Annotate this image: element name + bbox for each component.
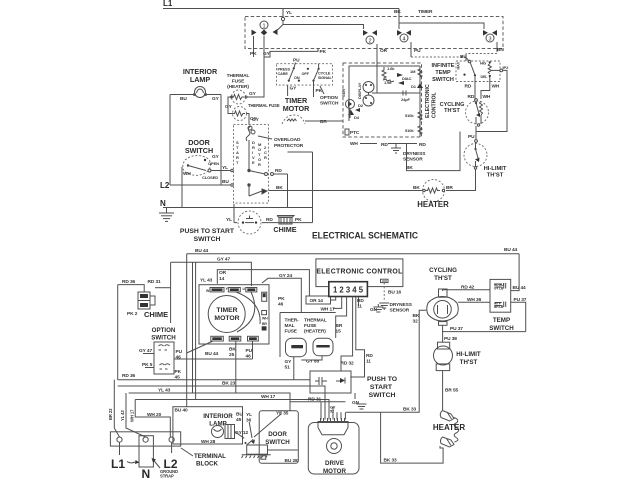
svg-text:BU: BU [236, 412, 243, 418]
svg-text:CHIME: CHIME [273, 225, 296, 234]
timer bottom terminals [211, 336, 258, 341]
svg-text:1: 1 [262, 24, 265, 30]
wire between fuses [228, 97, 233, 114]
svg-text:RD: RD [468, 94, 475, 100]
svg-text:PUSH TO START: PUSH TO START [180, 228, 235, 235]
svg-text:HIG: HIG [480, 62, 486, 66]
svg-text:BU 16: BU 16 [388, 290, 402, 296]
svg-text:R: R [258, 162, 261, 167]
wire BR to EC [305, 120, 343, 122]
svg-text:PK: PK [175, 369, 182, 375]
wire GN pts [354, 393, 356, 399]
svg-text:RD 36: RD 36 [122, 373, 136, 379]
svg-text:OR: OR [219, 270, 227, 276]
svg-text:TH'ST: TH'ST [444, 108, 460, 114]
svg-text:GY: GY [212, 96, 220, 102]
svg-text:ELECTRONIC: ELECTRONIC [425, 84, 431, 118]
wire resistor to IP2 [492, 69, 500, 71]
drive motor bottom [308, 418, 359, 475]
svg-text:IP2: IP2 [503, 65, 510, 70]
svg-text:PRESS: PRESS [278, 68, 291, 72]
svg-text:BU 44: BU 44 [205, 351, 219, 357]
wire PU37 bottom [442, 325, 444, 342]
svg-text:PK: PK [295, 217, 302, 223]
svg-text:CONTROL: CONTROL [432, 92, 438, 118]
inner frame [349, 66, 420, 93]
wire BK branch to circle3 [399, 23, 484, 29]
infinite temp switch box [456, 61, 500, 82]
svg-text:RD: RD [266, 217, 273, 223]
push to start box bottom [310, 371, 351, 393]
OR drop [376, 66, 378, 82]
svg-text:TERMINAL: TERMINAL [194, 453, 226, 460]
svg-text:45: 45 [236, 417, 242, 423]
svg-text:OPTION: OPTION [320, 95, 338, 101]
timer switch dashed box [245, 17, 503, 49]
wire RD42 [443, 290, 490, 291]
svg-text:BR: BR [336, 323, 343, 329]
svg-text:BH LB: BH LB [494, 305, 504, 309]
svg-text:SWITCH: SWITCH [185, 146, 213, 155]
svg-text:GY LB: GY LB [494, 287, 504, 291]
svg-text:FUSE: FUSE [285, 329, 298, 335]
heater top [413, 180, 453, 202]
svg-text:DOOR: DOOR [268, 431, 287, 438]
press care switch [293, 67, 295, 69]
temp switch box [490, 279, 511, 312]
svg-text:RD: RD [366, 353, 373, 359]
svg-text:FUSE: FUSE [232, 79, 245, 85]
timer top terminals [206, 287, 257, 293]
svg-text:LAMP: LAMP [190, 75, 211, 84]
svg-text:SWITCH: SWITCH [265, 439, 290, 446]
svg-text:D1: D1 [411, 84, 417, 89]
wire GY12 [235, 432, 245, 439]
heater bottom [433, 411, 466, 448]
svg-text:PK: PK [250, 51, 257, 57]
connector 12345 [329, 282, 368, 297]
wire heater left [313, 190, 424, 192]
svg-text:36: 36 [246, 418, 252, 424]
svg-text:WH: WH [483, 94, 491, 100]
svg-text:BK 33: BK 33 [403, 407, 417, 413]
svg-text:E: E [252, 160, 255, 165]
svg-text:BK: BK [276, 185, 283, 191]
svg-text:THERMAL: THERMAL [227, 73, 250, 79]
wire OR14 feed [217, 270, 309, 296]
svg-text:MAX: MAX [457, 61, 461, 69]
svg-text:BR 23: BR 23 [108, 408, 113, 420]
wire YL to contact 2 [283, 21, 364, 29]
svg-text:CHIME: CHIME [144, 310, 168, 319]
node YL junction [281, 17, 284, 20]
svg-text:BK: BK [413, 313, 420, 319]
svg-text:PU 37: PU 37 [450, 326, 463, 332]
wire door to right [268, 449, 298, 451]
svg-text:WH: WH [262, 317, 268, 321]
wire lamp box right [220, 95, 222, 186]
svg-text:SWITCH: SWITCH [489, 325, 514, 332]
svg-text:GY: GY [290, 86, 298, 92]
svg-text:GY: GY [212, 154, 220, 160]
resistor 1.9k diag [383, 79, 394, 82]
overload protector coil [246, 126, 251, 141]
svg-text:PU: PU [468, 134, 475, 140]
svg-text:HI-LIMIT: HI-LIMIT [484, 166, 507, 172]
svg-text:TEMP: TEMP [493, 317, 510, 324]
wire GY below [287, 85, 289, 96]
wire hi-limit to heater [446, 170, 476, 191]
svg-text:SWITCH: SWITCH [194, 236, 221, 243]
right rail [419, 66, 421, 137]
svg-text:SCR: SCR [341, 89, 346, 97]
wire RD32 pin4 [341, 297, 353, 372]
wire RD drop to chime row [287, 174, 289, 208]
svg-text:GY 55: GY 55 [306, 359, 319, 365]
svg-text:BR: BR [446, 185, 453, 191]
svg-text:YL: YL [286, 10, 292, 16]
svg-text:STRAP: STRAP [160, 474, 174, 479]
electronic control box bottom [316, 259, 403, 287]
wire door sw left drop [181, 167, 183, 208]
svg-text:510k: 510k [405, 113, 414, 118]
door mechanism [242, 412, 271, 459]
svg-text:OPEN: OPEN [208, 161, 219, 166]
timer box bottom [199, 285, 269, 344]
timer motor arc [282, 115, 305, 124]
svg-text:BU 44: BU 44 [195, 248, 209, 254]
wire BK from motor [269, 190, 314, 192]
svg-text:PU: PU [293, 58, 300, 64]
svg-text:46: 46 [246, 354, 252, 360]
svg-text:ELECTRICAL SCHEMATIC: ELECTRICAL SCHEMATIC [312, 231, 418, 241]
hi-limit thst top [464, 143, 487, 170]
svg-text:GY: GY [285, 359, 293, 365]
svg-text:SWITCH: SWITCH [320, 101, 339, 107]
svg-text:OR 14: OR 14 [310, 298, 324, 304]
svg-text:TH'ST: TH'ST [434, 275, 452, 282]
svg-text:BR 55: BR 55 [445, 388, 459, 394]
internal verticals [348, 93, 350, 121]
svg-text:11: 11 [357, 304, 362, 310]
node IP2 [500, 69, 503, 72]
svg-text:TH'ST: TH'ST [460, 359, 478, 366]
svg-text:RD: RD [381, 142, 388, 148]
svg-text:BK 33: BK 33 [384, 458, 398, 464]
svg-text:CARE: CARE [278, 72, 289, 76]
svg-text:N: N [160, 199, 166, 208]
svg-text:PU: PU [414, 48, 421, 54]
svg-text:D4: D4 [354, 115, 360, 120]
wire BK drop to timer contacts [398, 9, 400, 30]
cycling thst top [466, 99, 489, 127]
svg-text:14: 14 [219, 276, 225, 282]
wire L1 bus [163, 8, 399, 10]
svg-text:RD 42: RD 42 [461, 285, 475, 291]
svg-text:THERMAL FUSE: THERMAL FUSE [248, 103, 280, 108]
wire BR55 [442, 371, 444, 410]
wire GY step [264, 49, 318, 58]
svg-text:WH 28: WH 28 [201, 439, 216, 445]
timer cam curves [236, 292, 260, 324]
svg-text:BU: BU [180, 96, 187, 102]
svg-text:YL 43: YL 43 [158, 388, 171, 394]
diac [397, 73, 403, 77]
svg-text:46: 46 [278, 302, 284, 308]
svg-text:WH 36: WH 36 [467, 297, 482, 303]
svg-text:L1: L1 [163, 0, 173, 8]
wire heater return [381, 412, 444, 463]
svg-text:GN: GN [352, 400, 360, 406]
svg-text:DRYNESS: DRYNESS [390, 302, 413, 308]
svg-text:YL 35: YL 35 [276, 411, 289, 417]
svg-text:N: N [142, 467, 151, 480]
on off contacts [307, 68, 309, 70]
thermal fuse box bottom [280, 313, 336, 380]
svg-text:1.6k: 1.6k [387, 66, 395, 71]
svg-text:BR: BR [320, 119, 327, 125]
svg-text:CLOSED: CLOSED [202, 175, 218, 180]
wire BK from EC [407, 132, 461, 171]
chime bottom [127, 292, 168, 319]
wire YL drop [282, 9, 284, 18]
d2 d4 [355, 108, 360, 112]
svg-text:BU 44: BU 44 [513, 285, 527, 291]
svg-text:PU: PU [246, 348, 253, 354]
svg-text:THERMAL: THERMAL [304, 318, 327, 324]
chime speaker [277, 216, 302, 225]
wire YL36 [249, 422, 252, 438]
svg-text:4: 4 [402, 37, 405, 43]
wire RD11 pin5 [358, 297, 360, 307]
wire IP2 bypass [476, 70, 507, 131]
svg-text:SWITCH: SWITCH [369, 392, 396, 399]
timer cam contact 3 [483, 30, 504, 53]
dryness sensor top [391, 144, 401, 154]
svg-text:11: 11 [366, 359, 371, 365]
svg-text:46: 46 [176, 355, 182, 361]
svg-text:START: START [370, 384, 393, 391]
svg-text:BU 44: BU 44 [504, 247, 518, 253]
svg-text:PK: PK [320, 49, 327, 55]
svg-text:3: 3 [488, 37, 491, 43]
scr [346, 100, 355, 109]
display circles [363, 82, 374, 93]
wire RD31 [155, 287, 171, 289]
svg-text:25: 25 [229, 352, 235, 358]
svg-text:PROTECTOR: PROTECTOR [274, 143, 304, 149]
svg-text:WH 17: WH 17 [261, 394, 276, 400]
wire BU drop to inf temp switch [465, 54, 467, 62]
cycling thst bottom [427, 289, 459, 325]
svg-text:15: 15 [336, 329, 342, 335]
motor dashed box [234, 125, 269, 204]
svg-text:PK 2: PK 2 [127, 311, 138, 317]
svg-text:GY 24: GY 24 [279, 273, 292, 279]
rails mid [186, 254, 188, 407]
thermal fuse 2 [225, 103, 280, 122]
svg-text:PK: PK [278, 296, 285, 302]
timer right column [262, 292, 285, 330]
wire PU to inf temp area [411, 56, 466, 58]
svg-text:WH 20: WH 20 [147, 412, 162, 418]
timer switch cluster upper [264, 49, 339, 107]
wire RD36 chime [118, 285, 145, 292]
svg-text:WH: WH [492, 84, 500, 90]
svg-text:RD: RD [275, 168, 282, 174]
svg-text:RD 31: RD 31 [308, 397, 322, 403]
interior lamp box bottom [173, 407, 243, 444]
svg-text:HEATER: HEATER [433, 423, 466, 432]
svg-text:1 2 3 4 5: 1 2 3 4 5 [333, 285, 363, 295]
svg-text:BK: BK [394, 9, 401, 15]
wire PU37 right [511, 302, 526, 331]
wire GY24 [262, 278, 301, 312]
svg-text:TIMER: TIMER [216, 307, 237, 314]
cap on EC [381, 279, 389, 282]
svg-text:INFINITE: INFINITE [432, 63, 455, 69]
resistor 1.6k [382, 67, 386, 80]
svg-text:MOTOR: MOTOR [283, 104, 310, 113]
wire PK below [313, 85, 315, 97]
timer cam contact 1 [250, 21, 278, 57]
svg-text:HEATER: HEATER [417, 200, 449, 209]
svg-text:PU: PU [176, 349, 183, 355]
wire BU16 dryness [383, 283, 385, 302]
wire WH17 pin2 [333, 297, 342, 309]
svg-text:LAMP: LAMP [209, 421, 227, 428]
svg-text:SIGNAL: SIGNAL [318, 76, 333, 80]
svg-text:L1: L1 [111, 457, 125, 471]
svg-text:RD: RD [465, 84, 472, 90]
wire BR15 pin3 [336, 297, 347, 339]
svg-text:TIMER: TIMER [418, 9, 433, 15]
svg-text:52: 52 [330, 410, 334, 414]
svg-text:YL 43: YL 43 [200, 278, 213, 284]
wire L2 [170, 184, 231, 186]
svg-text:(HEATER): (HEATER) [304, 329, 326, 335]
svg-text:RD 32: RD 32 [341, 361, 355, 367]
svg-text:MOTOR: MOTOR [214, 315, 239, 322]
EC internals [341, 63, 423, 137]
svg-text:OPTION: OPTION [152, 327, 176, 334]
svg-text:BK: BK [406, 165, 413, 171]
wire chime row [234, 222, 237, 224]
option switch [139, 342, 183, 381]
wire fuse2 to motor box [247, 114, 250, 125]
svg-text:BR: BR [262, 322, 267, 326]
svg-text:RD: RD [419, 142, 426, 148]
svg-text:WH 17: WH 17 [130, 409, 135, 422]
wire WH36 [458, 301, 490, 303]
svg-text:DIAC: DIAC [402, 76, 412, 81]
terminal feeds [320, 402, 322, 420]
24uF cap [372, 92, 420, 94]
wire BU44 right rail [511, 254, 519, 291]
svg-text:WH: WH [183, 171, 191, 177]
svg-text:DEL: DEL [481, 75, 489, 79]
terminal block [110, 432, 226, 480]
svg-text:PUSH TO: PUSH TO [367, 376, 397, 383]
svg-text:(HEATER): (HEATER) [227, 84, 249, 90]
svg-text:CYCLING: CYCLING [429, 267, 457, 274]
wire BK32 cycling [346, 310, 426, 412]
svg-text:510k: 510k [405, 128, 414, 133]
svg-text:32: 32 [413, 319, 419, 325]
svg-text:BN: BN [497, 47, 504, 53]
wire cross link [288, 151, 313, 153]
svg-text:BU: BU [222, 179, 229, 185]
wire YL door to motor [211, 170, 231, 172]
svg-text:PU 37: PU 37 [514, 297, 527, 303]
svg-text:DISPLAY: DISPLAY [357, 82, 362, 99]
svg-text:YL: YL [246, 412, 252, 418]
svg-text:BU 40: BU 40 [175, 408, 189, 414]
cycle signal contact [318, 68, 320, 70]
svg-text:ON: ON [294, 76, 300, 80]
timer cam contact 2 [363, 30, 388, 63]
svg-text:51: 51 [285, 365, 291, 371]
svg-text:PU 38: PU 38 [444, 336, 457, 342]
wire GY from cam1 to fuse [247, 57, 264, 97]
svg-text:BK 23: BK 23 [222, 381, 236, 387]
wire BU44 timer drop [187, 341, 213, 353]
inf temp switch contacts [457, 58, 492, 80]
svg-text:YL: YL [226, 217, 232, 223]
thermal fuse (heater) [231, 90, 257, 104]
svg-text:PTC: PTC [350, 130, 360, 136]
wire RD from motor [271, 173, 274, 176]
door switch box bottom [259, 411, 298, 464]
svg-text:RD: RD [357, 298, 364, 304]
svg-text:BU 28: BU 28 [285, 458, 299, 464]
svg-text:CYCLE: CYCLE [318, 72, 331, 76]
door switch [183, 154, 220, 180]
option/press switch dashed box [277, 64, 333, 85]
svg-text:RD 36: RD 36 [122, 279, 136, 285]
svg-text:YL: YL [222, 165, 228, 171]
svg-text:TH'ST: TH'ST [487, 173, 504, 179]
push to start switch [226, 211, 273, 234]
svg-text:D2: D2 [358, 103, 364, 108]
svg-text:OVERLOAD: OVERLOAD [274, 137, 301, 143]
wire lamp box left [169, 95, 171, 186]
wire PU46 drop [252, 341, 254, 359]
wire BU44 bus [187, 253, 519, 255]
svg-text:GY: GY [249, 91, 257, 97]
timer cam contact 4 [397, 30, 421, 57]
left rail RD36 [117, 285, 119, 380]
svg-text:GY: GY [263, 51, 271, 57]
svg-text:HI-LIMIT: HI-LIMIT [456, 351, 481, 358]
wire chime right riser [312, 152, 314, 223]
svg-text:BLOCK: BLOCK [196, 461, 219, 468]
hi-limit bottom [434, 342, 453, 370]
svg-text:GY 47: GY 47 [217, 257, 230, 263]
svg-text:SENSOR: SENSOR [390, 308, 410, 314]
svg-text:R: R [264, 155, 267, 160]
svg-text:MOTOR: MOTOR [323, 468, 346, 475]
svg-text:SWITCH: SWITCH [432, 77, 454, 83]
svg-text:THER-: THER- [285, 318, 300, 324]
lamp [170, 87, 221, 103]
svg-text:DRIVE: DRIVE [325, 460, 344, 467]
wire BK25 drop [235, 341, 237, 393]
svg-text:1.9k: 1.9k [384, 80, 392, 85]
wire cycling to hi-limit [475, 126, 477, 140]
svg-text:OFF: OFF [302, 72, 310, 76]
motor internals [248, 140, 268, 196]
